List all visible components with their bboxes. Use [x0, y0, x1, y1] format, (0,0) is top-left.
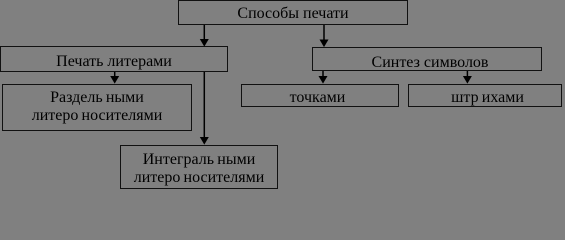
arrow: Печать литерами -> Раздельными литероносителями — [110, 72, 119, 84]
box: Печать литерами — [0, 46, 228, 72]
arrow: Синтез символов -> точками — [319, 71, 328, 84]
box: точками — [241, 84, 399, 107]
box: Способы печати — [178, 0, 408, 25]
arrow: Способы печати -> Синтез символов — [320, 25, 329, 47]
arrow: Синтез символов -> штрихами — [463, 71, 472, 84]
arrow: Способы печати -> Печать литерами — [200, 25, 209, 47]
box: Интегральными литероносителями — [120, 145, 278, 189]
arrow: Печать литерами -> Интегральными литероносителями — [200, 72, 209, 145]
box: штрихами — [408, 84, 562, 107]
box: Раздельными литероносителями — [2, 84, 192, 131]
box: Синтез символов — [312, 47, 542, 71]
